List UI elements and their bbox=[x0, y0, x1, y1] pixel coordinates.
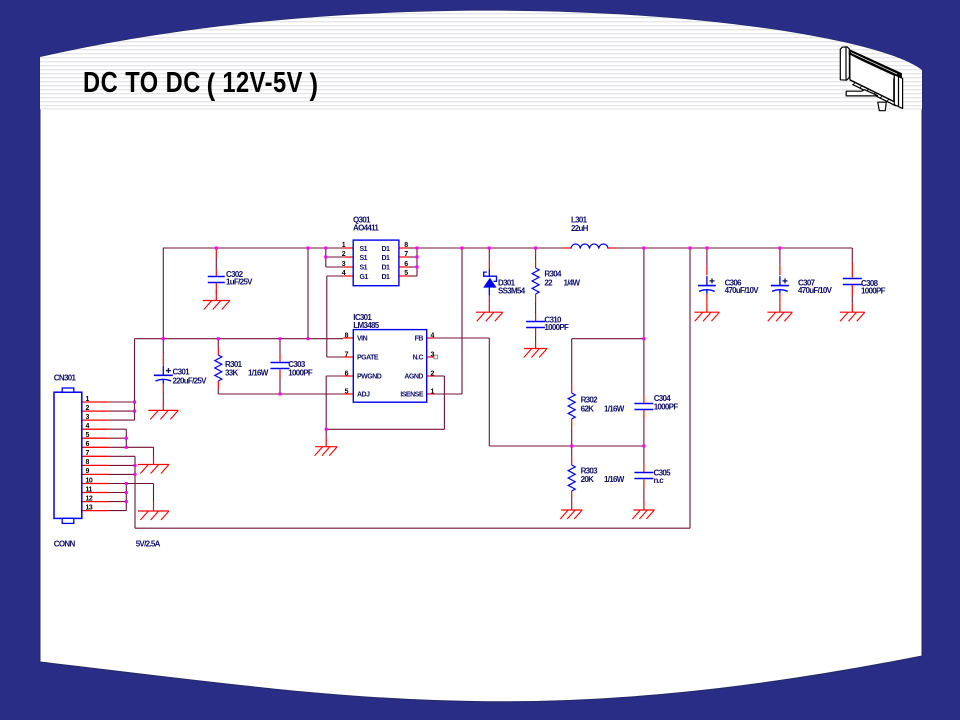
svg-text:11: 11 bbox=[86, 486, 93, 493]
svg-text:AO4411: AO4411 bbox=[353, 224, 379, 233]
svg-text:22: 22 bbox=[544, 278, 553, 287]
svg-text:7: 7 bbox=[404, 251, 408, 258]
svg-text:PWGND: PWGND bbox=[357, 374, 382, 381]
svg-text:C303: C303 bbox=[288, 360, 306, 369]
svg-text:CN301: CN301 bbox=[54, 374, 77, 383]
svg-text:3: 3 bbox=[86, 414, 90, 421]
svg-text:n.c: n.c bbox=[654, 476, 665, 485]
svg-text:R301: R301 bbox=[225, 360, 243, 369]
svg-text:3: 3 bbox=[342, 261, 346, 268]
svg-text:D1: D1 bbox=[382, 246, 391, 253]
svg-text:6: 6 bbox=[86, 441, 90, 448]
svg-text:1/16W: 1/16W bbox=[604, 475, 625, 484]
svg-text:7: 7 bbox=[345, 352, 349, 359]
svg-text:D1: D1 bbox=[382, 255, 391, 262]
svg-text:CONN: CONN bbox=[54, 539, 76, 548]
svg-text:7: 7 bbox=[86, 450, 90, 457]
svg-text:5: 5 bbox=[86, 432, 90, 439]
svg-text:12: 12 bbox=[86, 495, 93, 502]
svg-text:4: 4 bbox=[86, 423, 90, 430]
svg-text:ISENSE: ISENSE bbox=[400, 392, 424, 399]
svg-text:1/4W: 1/4W bbox=[564, 278, 581, 287]
svg-text:SS3M54: SS3M54 bbox=[498, 287, 526, 296]
svg-text:DC TO DC(12V-5V): DC TO DC(12V-5V) bbox=[83, 66, 319, 102]
svg-text:5: 5 bbox=[345, 389, 349, 396]
svg-text:R302: R302 bbox=[581, 396, 599, 405]
svg-text:4: 4 bbox=[431, 333, 435, 340]
svg-text:S1: S1 bbox=[360, 265, 368, 272]
svg-text:1000PF: 1000PF bbox=[861, 287, 886, 296]
svg-text:2: 2 bbox=[342, 251, 346, 258]
svg-text:13: 13 bbox=[86, 504, 93, 511]
svg-text:62K: 62K bbox=[581, 405, 594, 414]
svg-text:D1: D1 bbox=[382, 265, 391, 272]
svg-text:1000PF: 1000PF bbox=[544, 323, 569, 332]
svg-text:LM3485: LM3485 bbox=[353, 321, 379, 330]
svg-text:4: 4 bbox=[342, 270, 346, 277]
svg-text:2: 2 bbox=[431, 371, 435, 378]
svg-text:1000PF: 1000PF bbox=[654, 403, 679, 412]
svg-text:1: 1 bbox=[342, 242, 346, 249]
svg-text:AGND: AGND bbox=[404, 374, 423, 381]
svg-text:1: 1 bbox=[431, 389, 435, 396]
svg-text:PGATE: PGATE bbox=[357, 355, 379, 362]
svg-text:5: 5 bbox=[404, 270, 408, 277]
svg-text:3: 3 bbox=[431, 352, 435, 359]
svg-text:D1: D1 bbox=[382, 274, 391, 281]
svg-text:S1: S1 bbox=[360, 246, 368, 253]
svg-text:5V/2.5A: 5V/2.5A bbox=[136, 539, 161, 548]
svg-text:6: 6 bbox=[345, 371, 349, 378]
svg-text:470uF/10V: 470uF/10V bbox=[798, 286, 833, 295]
svg-text:R304: R304 bbox=[544, 270, 562, 279]
svg-text:10: 10 bbox=[86, 477, 93, 484]
svg-text:8: 8 bbox=[86, 459, 90, 466]
svg-text:8: 8 bbox=[345, 333, 349, 340]
svg-text:G1: G1 bbox=[360, 274, 369, 281]
svg-text:N.C: N.C bbox=[412, 355, 423, 362]
svg-text:470uF/10V: 470uF/10V bbox=[725, 286, 760, 295]
svg-text:1/16W: 1/16W bbox=[248, 369, 269, 378]
svg-text:1: 1 bbox=[86, 396, 90, 403]
svg-text:VIN: VIN bbox=[357, 336, 368, 343]
svg-text:8: 8 bbox=[404, 242, 408, 249]
svg-text:FB: FB bbox=[415, 336, 424, 343]
svg-text:1000PF: 1000PF bbox=[288, 369, 313, 378]
svg-text:1/16W: 1/16W bbox=[604, 405, 625, 414]
svg-text:ADJ: ADJ bbox=[357, 392, 370, 399]
svg-text:S1: S1 bbox=[360, 255, 368, 262]
svg-text:1uF/25V: 1uF/25V bbox=[226, 277, 253, 286]
svg-text:9: 9 bbox=[86, 468, 90, 475]
svg-text:6: 6 bbox=[404, 261, 408, 268]
svg-text:C301: C301 bbox=[173, 368, 191, 377]
svg-text:33K: 33K bbox=[225, 369, 238, 378]
svg-text:22uH: 22uH bbox=[571, 224, 589, 233]
svg-text:220uF/25V: 220uF/25V bbox=[173, 377, 208, 386]
svg-text:20K: 20K bbox=[581, 475, 594, 484]
svg-text:2: 2 bbox=[86, 405, 90, 412]
